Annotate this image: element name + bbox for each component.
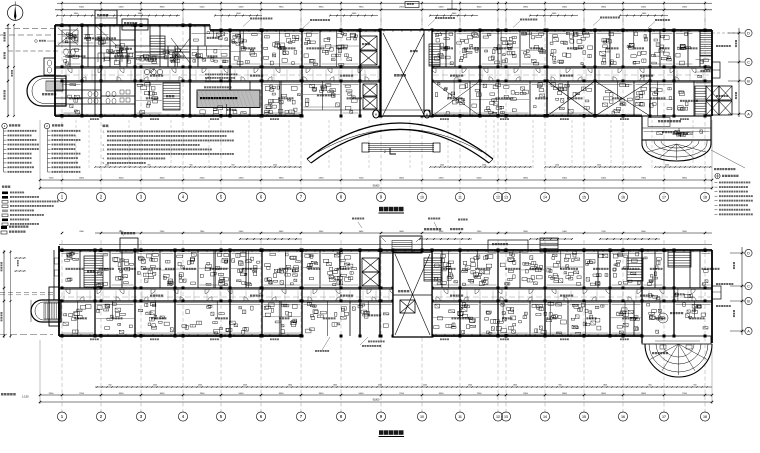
svg-text:14: 14	[543, 415, 547, 419]
svg-text:A: A	[747, 112, 750, 116]
svg-text:2300: 2300	[119, 6, 125, 8]
svg-text:3600: 3600	[160, 178, 166, 180]
svg-text:12: 12	[496, 415, 500, 419]
svg-text:7800: 7800	[279, 178, 285, 180]
svg-text:3300: 3300	[562, 6, 568, 8]
svg-text:5400: 5400	[477, 178, 483, 180]
svg-text:2300: 2300	[105, 165, 109, 167]
svg-text:2300: 2300	[153, 385, 157, 387]
svg-text:D: D	[747, 31, 750, 35]
svg-text:10: 10	[420, 415, 424, 419]
svg-text:16: 16	[621, 415, 625, 419]
svg-text:3600: 3600	[119, 178, 125, 180]
svg-text:2300: 2300	[243, 385, 247, 387]
svg-text:10: 10	[420, 195, 424, 199]
svg-text:2300: 2300	[399, 6, 405, 8]
svg-text:16: 16	[621, 195, 625, 199]
svg-text:2300: 2300	[682, 6, 688, 8]
svg-text:M: M	[375, 113, 377, 117]
svg-text:1800: 1800	[288, 385, 292, 387]
svg-text:B: B	[747, 79, 750, 83]
svg-text:900: 900	[232, 165, 235, 167]
svg-text:2300: 2300	[597, 165, 601, 167]
svg-text:1800: 1800	[513, 385, 517, 387]
svg-text:2300: 2300	[440, 165, 444, 167]
svg-text:2.: 2.	[103, 144, 105, 147]
svg-text:3300: 3300	[279, 393, 285, 395]
svg-text:3900: 3900	[523, 6, 529, 8]
svg-text:900: 900	[148, 165, 151, 167]
svg-text:900: 900	[559, 385, 562, 387]
svg-text:2300: 2300	[439, 178, 445, 180]
svg-text:3900: 3900	[682, 178, 688, 180]
svg-text:14: 14	[543, 195, 547, 199]
svg-text:17: 17	[662, 195, 666, 199]
svg-text:11: 11	[458, 195, 462, 199]
svg-text:5400: 5400	[641, 6, 647, 8]
svg-text:7200: 7200	[399, 393, 405, 395]
svg-text:900: 900	[190, 165, 193, 167]
svg-text:18: 18	[703, 415, 707, 419]
svg-text:2300: 2300	[468, 385, 472, 387]
svg-text:3900: 3900	[319, 6, 325, 8]
svg-text:15: 15	[582, 415, 586, 419]
svg-text:5400: 5400	[359, 393, 365, 395]
svg-text:2300: 2300	[555, 165, 559, 167]
svg-text:5400: 5400	[239, 6, 245, 8]
svg-text:2300: 2300	[273, 165, 277, 167]
svg-text:3900: 3900	[641, 393, 647, 395]
svg-text:2300: 2300	[665, 165, 669, 167]
svg-text:2300: 2300	[198, 385, 202, 387]
svg-text:3900: 3900	[601, 6, 607, 8]
svg-text:3600: 3600	[399, 178, 405, 180]
svg-text:1.: 1.	[103, 131, 105, 134]
svg-text:12: 12	[496, 195, 500, 199]
svg-text:3900: 3900	[562, 393, 568, 395]
svg-text:17: 17	[662, 415, 666, 419]
svg-text:1800: 1800	[333, 385, 337, 387]
svg-text:5.: 5.	[103, 162, 105, 165]
svg-text:7200: 7200	[682, 393, 688, 395]
svg-text:M: M	[426, 113, 428, 117]
svg-text:2300: 2300	[49, 393, 55, 395]
svg-text:2300: 2300	[200, 178, 206, 180]
svg-text:7200: 7200	[359, 178, 365, 180]
svg-text:13: 13	[504, 415, 508, 419]
svg-text:900: 900	[649, 385, 652, 387]
svg-text:5400: 5400	[601, 178, 607, 180]
svg-text:3.: 3.	[103, 149, 105, 152]
svg-text:7800: 7800	[200, 393, 206, 395]
svg-text:900: 900	[694, 385, 697, 387]
svg-text:C: C	[747, 60, 750, 64]
svg-text:18: 18	[703, 195, 707, 199]
svg-text:7800: 7800	[641, 178, 647, 180]
svg-text:2300: 2300	[378, 385, 382, 387]
svg-text:3300: 3300	[439, 393, 445, 395]
svg-text:2300: 2300	[319, 178, 325, 180]
svg-text:2300: 2300	[439, 6, 445, 8]
svg-text:D: D	[747, 251, 750, 255]
svg-text:5400: 5400	[79, 6, 85, 8]
svg-text:3300: 3300	[79, 178, 85, 180]
svg-text:11: 11	[458, 415, 462, 419]
svg-text:7800: 7800	[279, 6, 285, 8]
svg-text:2300: 2300	[482, 165, 486, 167]
svg-text:5400: 5400	[562, 178, 568, 180]
svg-text:3900: 3900	[160, 6, 166, 8]
svg-text:900: 900	[109, 385, 112, 387]
svg-text:3300: 3300	[119, 393, 125, 395]
svg-text:13: 13	[504, 195, 508, 199]
svg-text:3600: 3600	[601, 393, 607, 395]
svg-text:15: 15	[582, 195, 586, 199]
svg-text:2300: 2300	[423, 385, 427, 387]
svg-text:91800: 91800	[373, 399, 380, 402]
svg-text:2300: 2300	[239, 178, 245, 180]
svg-text:7200: 7200	[49, 178, 55, 180]
svg-text:3600: 3600	[477, 6, 483, 8]
svg-text:5400: 5400	[200, 6, 206, 8]
svg-text:3900: 3900	[523, 178, 529, 180]
svg-text:7800: 7800	[359, 6, 365, 8]
svg-text:A: A	[747, 329, 750, 333]
svg-text:2: 2	[384, 150, 386, 154]
svg-text:3900: 3900	[319, 393, 325, 395]
svg-text:5400: 5400	[239, 393, 245, 395]
svg-text:C: C	[747, 284, 750, 288]
svg-text:1800: 1800	[603, 385, 607, 387]
svg-text:3600: 3600	[160, 393, 166, 395]
svg-text:91800: 91800	[373, 185, 380, 188]
svg-text:4.: 4.	[103, 158, 105, 161]
svg-text:2300: 2300	[523, 393, 529, 395]
svg-text:B: B	[747, 299, 750, 303]
svg-text:7200: 7200	[79, 393, 85, 395]
svg-text:7200: 7200	[477, 393, 483, 395]
